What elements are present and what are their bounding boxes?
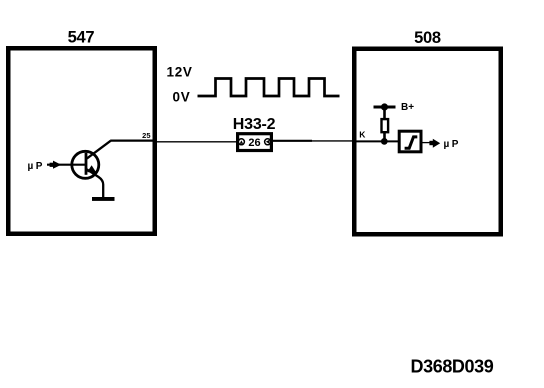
wire trigger output (422, 142, 431, 144)
svg-text:0V: 0V (173, 90, 191, 105)
pin circle right (265, 139, 271, 145)
arrow output (429, 139, 440, 148)
connector H33-2 (238, 134, 272, 151)
B+ supply bar (374, 106, 396, 109)
svg-text:µP: µP (444, 139, 461, 150)
emitter line (87, 169, 103, 197)
wire connector to 508 (271, 140, 312, 142)
wire K to trigger (356, 140, 399, 142)
box 547 (control module) (8, 48, 155, 234)
trigger symbol (405, 137, 418, 148)
svg-text:12V: 12V (167, 64, 193, 79)
wire 547 to connector (157, 141, 239, 143)
svg-text:B+: B+ (401, 102, 414, 113)
transistor Q (NPN, in 547) (72, 141, 111, 198)
svg-text:H33-2: H33-2 (233, 116, 276, 133)
wire B+ to resistor (383, 107, 386, 119)
trigger box U1 (399, 131, 421, 152)
svg-text:D368D039: D368D039 (411, 357, 494, 377)
svg-text:508: 508 (414, 29, 441, 47)
wire resistor to junction (383, 133, 386, 142)
emitter arrowhead (87, 165, 97, 173)
box 508 (control module) (354, 49, 501, 235)
svg-text:µP: µP (28, 161, 45, 172)
pin circle left (238, 139, 244, 145)
square-wave signal (198, 79, 340, 97)
wire base input (47, 164, 86, 166)
svg-text:25: 25 (142, 131, 150, 140)
wire collector to box edge (110, 140, 157, 142)
resistor R1 (382, 119, 389, 132)
collector line (87, 141, 111, 159)
arrow into base (50, 161, 62, 169)
svg-text:K: K (359, 130, 366, 140)
svg-text:547: 547 (68, 29, 95, 47)
svg-text:26: 26 (248, 137, 260, 149)
junction (381, 138, 388, 145)
ground (92, 197, 115, 201)
